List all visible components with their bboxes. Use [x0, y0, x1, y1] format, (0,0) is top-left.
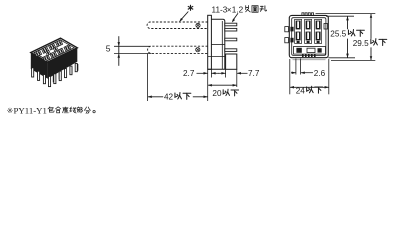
top edge ticks: [302, 13, 304, 16]
asterisk note marker: [188, 5, 193, 11]
left tabs: [285, 27, 289, 32]
svg-text:24: 24: [296, 87, 306, 96]
bottom gray line: [293, 59, 326, 61]
right edge notch: [324, 24, 328, 30]
bottom slots: [294, 47, 326, 55]
pin slot columns: [295, 19, 302, 43]
svg-text:20: 20: [212, 89, 222, 98]
dimension 7.7: [219, 72, 226, 74]
svg-text:5: 5: [106, 43, 111, 53]
back view outline: [289, 15, 328, 57]
side view: rear block: [226, 54, 237, 69]
svg-text:1.2: 1.2: [232, 5, 244, 14]
dimension 42 max: [147, 54, 149, 101]
dimension 20 max: [208, 84, 237, 86]
hold-down arm upper (dashed): [147, 22, 208, 29]
footnote: PY11-Y1 includes dashed part: [7, 106, 95, 116]
svg-text:42: 42: [164, 93, 174, 102]
svg-text:2.6: 2.6: [314, 69, 326, 78]
svg-text:7.7: 7.7: [248, 69, 260, 78]
bottom inner teeth: [302, 54, 304, 57]
dimension 24 max: [289, 59, 291, 94]
svg-text:29.5: 29.5: [353, 39, 369, 48]
svg-text:2.7: 2.7: [183, 69, 195, 78]
dimension 2.6: [295, 59, 297, 75]
left inner slots: [290, 27, 293, 32]
dimension 29.5 max: [316, 13, 376, 15]
svg-text:PY11-Y1: PY11-Y1: [14, 106, 47, 116]
hold-down arm lower (dashed): [148, 46, 208, 53]
side view: front plate: [208, 15, 212, 69]
side view: main body: [208, 19, 225, 69]
svg-text:25.5: 25.5: [330, 30, 346, 39]
dimension 25.5 max: [326, 15, 354, 17]
isometric socket view: [31, 38, 79, 86]
svg-text:11-3: 11-3: [212, 5, 228, 14]
terminal pins: [225, 23, 237, 26]
